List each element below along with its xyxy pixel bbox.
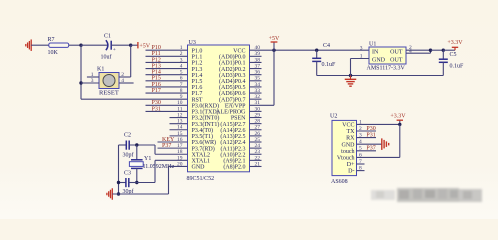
svg-text:P3.6(WR): P3.6(WR) bbox=[192, 139, 217, 146]
resistor R7 10K bbox=[48, 37, 69, 56]
svg-text:C1: C1 bbox=[104, 33, 111, 39]
svg-text:GND: GND bbox=[342, 142, 356, 148]
net label P30 bbox=[152, 100, 161, 106]
U3 pin 26 (A13)P2.5 bbox=[220, 131, 260, 140]
svg-text:30pf: 30pf bbox=[123, 152, 134, 159]
ground (U2) bbox=[382, 138, 389, 150]
U3 pin 19 XTAL1 bbox=[177, 155, 210, 164]
power +5V (VCC) bbox=[269, 36, 280, 50]
net label P31 bbox=[152, 106, 161, 112]
svg-text:P1.5: P1.5 bbox=[192, 79, 203, 85]
svg-text:touch: touch bbox=[341, 149, 354, 155]
svg-text:P11: P11 bbox=[152, 51, 161, 57]
net label P30 (U2) bbox=[366, 126, 375, 132]
wire U2 touch net P37 bbox=[357, 150, 377, 152]
node xtal bottom (crystal axis) bbox=[135, 181, 138, 184]
wire XTAL1 pin19 jog bbox=[137, 160, 188, 182]
net label KEY bbox=[162, 137, 175, 143]
wire U2 TX net P30 bbox=[357, 130, 377, 132]
capacitor C1 10uf (polarized) bbox=[101, 33, 116, 60]
svg-text:P10: P10 bbox=[152, 45, 161, 51]
wire C1 to node B bbox=[111, 44, 131, 46]
U3 pin 25 (A12)P2.4 bbox=[220, 137, 260, 146]
svg-text:P37: P37 bbox=[366, 146, 375, 152]
node rail/ground wire bbox=[117, 192, 120, 195]
U2 pin 7 D+ bbox=[347, 159, 362, 168]
svg-text:P1.7: P1.7 bbox=[192, 91, 203, 97]
U1 pin 1 GND wire bbox=[351, 53, 370, 75]
net label P37 bbox=[162, 143, 171, 149]
U3 pin 34 (AD5)P0.5 bbox=[219, 82, 260, 91]
svg-text:Y1: Y1 bbox=[144, 156, 151, 162]
svg-text:P31: P31 bbox=[152, 106, 161, 112]
wire net P13 bbox=[146, 68, 188, 70]
wire ground rail (left of crystal) bbox=[118, 145, 120, 194]
svg-text:+3.3V: +3.3V bbox=[447, 40, 463, 46]
svg-text:(A14)P2.6: (A14)P2.6 bbox=[220, 127, 245, 134]
U3 pin 13 P3.3(INT1) bbox=[177, 119, 219, 128]
svg-text:(AD7)P0.7: (AD7)P0.7 bbox=[219, 96, 246, 103]
svg-text:U2: U2 bbox=[330, 114, 337, 120]
svg-text:GND: GND bbox=[372, 57, 386, 63]
wire VCC pin40 to regulator bbox=[250, 49, 370, 51]
wire stub pin 26 bbox=[250, 135, 262, 137]
net label P16 bbox=[152, 82, 161, 88]
svg-text:P3.0(RXD): P3.0(RXD) bbox=[192, 103, 220, 110]
svg-text:P1.4: P1.4 bbox=[192, 73, 203, 79]
button pin 4 bbox=[119, 78, 134, 84]
U3 pin 24 (A11)P2.3 bbox=[221, 143, 261, 152]
svg-text:U3: U3 bbox=[189, 40, 196, 46]
wire stub pin 21 bbox=[250, 165, 262, 167]
svg-text:C5: C5 bbox=[450, 52, 457, 58]
U3 pin 12 P3.2(INT0) bbox=[177, 112, 219, 121]
U3 pin 5 P1.4 bbox=[180, 70, 203, 79]
button pin 3 bbox=[81, 78, 99, 84]
svg-text:RESET: RESET bbox=[99, 90, 119, 97]
svg-text:(A13)P2.5: (A13)P2.5 bbox=[220, 133, 245, 140]
svg-text:RST: RST bbox=[192, 97, 203, 103]
U2 pin 8 D- bbox=[348, 166, 362, 175]
wire net P12 bbox=[146, 61, 188, 63]
svg-text:R7: R7 bbox=[48, 37, 55, 43]
U3 pin 36 (AD3)P0.3 bbox=[219, 70, 260, 79]
svg-text:AMS1117-3.3V: AMS1117-3.3V bbox=[367, 66, 406, 72]
U3 pin 11 P3.1(TXD) bbox=[177, 106, 218, 115]
wire net P15 bbox=[146, 80, 188, 82]
svg-text:3: 3 bbox=[91, 78, 94, 84]
svg-text:+5V: +5V bbox=[139, 43, 150, 49]
U1 pin 4 OUT bbox=[406, 49, 431, 55]
node A (junction R7/C1/button) bbox=[79, 44, 82, 47]
capacitor C4 0.1uF bbox=[312, 43, 336, 76]
svg-text:P1.2: P1.2 bbox=[192, 61, 203, 67]
svg-text:IN: IN bbox=[372, 49, 379, 55]
U3 pin 7 P1.6 bbox=[180, 82, 203, 91]
wire stub pin 27 bbox=[250, 129, 262, 131]
svg-text:(AD6)P0.6: (AD6)P0.6 bbox=[219, 90, 246, 97]
svg-text:(A15)P2.7: (A15)P2.7 bbox=[220, 121, 245, 128]
wire stub pin 38 bbox=[250, 61, 262, 63]
U3 pin 6 P1.5 bbox=[180, 76, 203, 85]
wire net P17 bbox=[146, 92, 188, 94]
node B (junction C1/+5V/button right) bbox=[129, 44, 132, 47]
wire R7 to node A bbox=[69, 44, 81, 46]
watermark (blurred) bbox=[371, 188, 482, 202]
wire stub pin 29 bbox=[250, 117, 262, 119]
net label P17 bbox=[152, 88, 161, 94]
net label P15 bbox=[152, 76, 161, 82]
wire U2 D+ stub bbox=[357, 163, 365, 165]
svg-text:P16: P16 bbox=[152, 82, 161, 88]
svg-text:P30: P30 bbox=[366, 126, 375, 132]
svg-text:P31: P31 bbox=[366, 133, 375, 139]
wire U2 Vtouch to +3.3V bbox=[357, 124, 400, 157]
U2 pin 4 GND bbox=[342, 139, 363, 148]
svg-text:4: 4 bbox=[121, 78, 124, 84]
svg-text:(AD5)P0.5: (AD5)P0.5 bbox=[219, 84, 246, 91]
svg-text:P15: P15 bbox=[152, 76, 161, 82]
svg-text:C2: C2 bbox=[124, 132, 131, 138]
svg-text:P1.3: P1.3 bbox=[192, 67, 203, 73]
wire stub pin 25 bbox=[250, 141, 262, 143]
designator U2 bbox=[330, 114, 337, 120]
svg-text:+5V: +5V bbox=[269, 36, 280, 42]
wire stub pin 36 bbox=[250, 74, 262, 76]
ground (crystal) bbox=[107, 188, 112, 200]
U2 pin 3 RX bbox=[346, 133, 362, 142]
svg-text:(A11)P2.3: (A11)P2.3 bbox=[221, 145, 246, 152]
wire net P11 bbox=[146, 55, 188, 57]
U3 pin 33 (AD6)P0.6 bbox=[219, 88, 260, 97]
svg-text:4: 4 bbox=[409, 49, 412, 55]
svg-text:P14: P14 bbox=[152, 70, 161, 76]
capacitor C5 0.1uF bbox=[439, 50, 464, 75]
wire stub pin 33 bbox=[250, 92, 262, 94]
U2 pin 5 touch bbox=[341, 146, 362, 155]
module U2 AS608 body bbox=[332, 120, 357, 175]
wire XTAL2 pin18 jog bbox=[155, 145, 188, 154]
svg-text:PSEN: PSEN bbox=[231, 116, 246, 122]
wire reset bottom to RST pin bbox=[81, 98, 188, 100]
U1 pin 3 IN bbox=[360, 45, 363, 51]
svg-text:P13: P13 bbox=[152, 63, 161, 69]
svg-text:P1.1: P1.1 bbox=[192, 55, 203, 61]
U3 pin 2 P1.1 bbox=[180, 51, 203, 60]
net label P31 (U2) bbox=[366, 133, 375, 139]
wire stub pin 24 bbox=[250, 147, 262, 149]
wire stub pin 28 bbox=[250, 123, 262, 125]
U2 pin 6 Vtouch bbox=[337, 152, 362, 161]
svg-text:0.1uF: 0.1uF bbox=[322, 62, 337, 68]
node U1 outputs join bbox=[429, 49, 432, 52]
svg-text:D+: D+ bbox=[347, 162, 355, 168]
wire U2 RX net P31 bbox=[357, 137, 377, 139]
svg-text:GND: GND bbox=[192, 165, 206, 171]
part name 89C51/C52 bbox=[187, 176, 215, 182]
U3 pin 39 (AD0)P0.0 bbox=[219, 51, 260, 60]
svg-text:P3.7(RD): P3.7(RD) bbox=[192, 145, 215, 152]
svg-text:P12: P12 bbox=[152, 57, 161, 63]
wire stub pin 23 bbox=[250, 153, 262, 155]
svg-text:ALE/PROG: ALE/PROG bbox=[216, 110, 246, 116]
U3 pin 4 P1.3 bbox=[180, 64, 203, 73]
net label P10 bbox=[152, 45, 161, 51]
svg-text:C4: C4 bbox=[323, 43, 330, 49]
svg-text:P30: P30 bbox=[152, 100, 161, 106]
svg-text:(AD4)P0.4: (AD4)P0.4 bbox=[219, 78, 246, 85]
wire gnd rail under U1 bbox=[317, 75, 444, 77]
wire xtal top (to C2) bbox=[119, 144, 156, 146]
push button K1 RESET bbox=[97, 67, 119, 89]
svg-text:P3.2(INT0): P3.2(INT0) bbox=[192, 115, 220, 122]
svg-text:(AD1)P0.1: (AD1)P0.1 bbox=[219, 60, 246, 67]
U3 pin 17 P3.7(RD) bbox=[177, 143, 215, 152]
wire stub pin 39 bbox=[250, 55, 262, 57]
designator U3 bbox=[189, 40, 196, 46]
svg-text:(AD0)P0.0: (AD0)P0.0 bbox=[219, 54, 246, 61]
wire to +3.3V bbox=[443, 49, 455, 51]
node U2 VCC/Vtouch bbox=[398, 123, 401, 126]
wire net P31 bbox=[146, 110, 188, 112]
wire U2 D- stub bbox=[357, 170, 365, 172]
svg-text:C3: C3 bbox=[124, 171, 131, 177]
svg-text:(A12)P2.4: (A12)P2.4 bbox=[220, 139, 245, 146]
label RESET bbox=[99, 90, 119, 97]
svg-text:(A8)P2.0: (A8)P2.0 bbox=[223, 164, 245, 171]
svg-text:P3.4(T0): P3.4(T0) bbox=[192, 127, 214, 134]
button pin 1 bbox=[87, 72, 99, 78]
wire button pin2 up to node B bbox=[130, 45, 132, 77]
part name AS608 bbox=[331, 179, 348, 185]
wire stub pin 32 bbox=[250, 98, 262, 100]
U3 pin 40 VCC bbox=[233, 45, 260, 54]
U3 pin 3 P1.2 bbox=[180, 57, 203, 66]
svg-text:10K: 10K bbox=[48, 50, 59, 56]
U2 pin 1 VCC bbox=[342, 119, 362, 128]
U3 pin 37 (AD2)P0.2 bbox=[219, 64, 260, 73]
svg-text:P1.0: P1.0 bbox=[192, 48, 203, 54]
svg-text:P1.6: P1.6 bbox=[192, 85, 203, 91]
svg-text:1: 1 bbox=[91, 72, 94, 78]
net label P14 bbox=[152, 70, 161, 76]
svg-text:OUT: OUT bbox=[390, 49, 403, 55]
svg-text:1: 1 bbox=[360, 53, 363, 59]
U3 pin 14 P3.4(T0) bbox=[177, 125, 213, 134]
U3 pin 22 (A9)P2.1 bbox=[223, 155, 260, 164]
svg-text:U1: U1 bbox=[369, 42, 376, 48]
capacitor C2 30pf bbox=[123, 132, 134, 158]
wire node B to +5V bar bbox=[131, 44, 138, 46]
U3 pin 10 P3.0(RXD) bbox=[177, 100, 219, 109]
U3 pin 23 (A10)P2.2 bbox=[220, 149, 260, 158]
U3 pin 29 PSEN bbox=[231, 112, 260, 121]
svg-text:XTAL1: XTAL1 bbox=[192, 159, 211, 165]
U3 pin 16 P3.6(WR) bbox=[177, 137, 216, 146]
wire OUT to C5 bbox=[431, 49, 444, 51]
power +3.3V (regulator out) bbox=[447, 40, 463, 50]
wire stub pin 37 bbox=[250, 68, 262, 70]
svg-text:VCC: VCC bbox=[342, 123, 354, 129]
net label P12 bbox=[152, 57, 161, 63]
crystal Y1 11.0592MHz bbox=[129, 145, 174, 183]
svg-text:3: 3 bbox=[360, 45, 363, 51]
svg-text:AS608: AS608 bbox=[331, 179, 348, 185]
ground (regulator) bbox=[345, 76, 357, 87]
ground (reset, left of R7) bbox=[26, 39, 31, 51]
U3 pin 28 (A15)P2.7 bbox=[220, 119, 260, 128]
U3 pin 30 ALE/PROG bbox=[216, 106, 260, 115]
svg-text:89C51/C52: 89C51/C52 bbox=[187, 176, 215, 182]
svg-text:Vtouch: Vtouch bbox=[337, 156, 355, 162]
svg-text:+: + bbox=[113, 47, 116, 53]
svg-text:VCC: VCC bbox=[233, 48, 245, 54]
wire stub pin 30 bbox=[250, 110, 262, 112]
wire net P30 bbox=[146, 104, 188, 106]
U1 pin 2 OUT bbox=[406, 45, 431, 51]
wire U2 GND bbox=[357, 143, 382, 145]
wire net KEY bbox=[158, 141, 188, 143]
capacitor C3 30pf bbox=[123, 171, 137, 195]
node xtal top (crystal axis) bbox=[135, 143, 138, 146]
wire EA/VPP to +5V bbox=[250, 50, 275, 105]
svg-text:(A9)P2.1: (A9)P2.1 bbox=[223, 158, 245, 165]
net label P37 (U2) bbox=[366, 146, 375, 152]
U3 pin 38 (AD1)P0.1 bbox=[219, 57, 260, 66]
U3 pin 15 P3.5(T1) bbox=[177, 131, 213, 140]
svg-text:KEY: KEY bbox=[162, 137, 175, 143]
net label P11 bbox=[152, 51, 161, 57]
svg-text:XTAL2: XTAL2 bbox=[192, 152, 211, 158]
wire U2 VCC bbox=[357, 123, 400, 125]
wire ground to R7 bbox=[31, 44, 49, 46]
power +3.3V (U2) bbox=[390, 114, 406, 125]
U3 pin 20 GND bbox=[177, 161, 205, 170]
U3 pin 27 (A14)P2.6 bbox=[220, 125, 260, 134]
svg-text:0.1uF: 0.1uF bbox=[450, 63, 465, 69]
svg-text:P37: P37 bbox=[162, 143, 171, 149]
svg-text:+3.3V: +3.3V bbox=[390, 114, 406, 120]
U3 pin 8 P1.7 bbox=[180, 88, 203, 97]
svg-text:OUT: OUT bbox=[390, 57, 403, 63]
U2 pin 2 TX bbox=[347, 126, 363, 135]
U3 pin 1 P1.0 bbox=[180, 45, 203, 54]
wire net P37 bbox=[158, 147, 188, 149]
wire stub pin 15 bbox=[170, 135, 188, 137]
wire node A down to reset bottom bbox=[80, 45, 82, 99]
svg-text:P3.3(INT1): P3.3(INT1) bbox=[192, 121, 220, 128]
regulator U1 AMS1117-3.3V bbox=[367, 42, 407, 72]
wire net P14 bbox=[146, 74, 188, 76]
node rail/C3 bbox=[117, 181, 120, 184]
net label P13 bbox=[152, 63, 161, 69]
U3 pin 31 EA/VPP bbox=[225, 100, 260, 109]
U3 pin 21 (A8)P2.0 bbox=[223, 161, 260, 170]
wire net P16 bbox=[146, 86, 188, 88]
svg-text:(AD3)P0.3: (AD3)P0.3 bbox=[219, 72, 246, 79]
svg-text:TX: TX bbox=[347, 129, 356, 135]
wire stub pin 22 bbox=[250, 159, 262, 161]
power +5V (reset rail) bbox=[138, 42, 151, 49]
wire node A to C1 bbox=[81, 44, 108, 46]
svg-text:P17: P17 bbox=[152, 88, 161, 94]
op chip U3 89C51 body bbox=[188, 45, 250, 172]
U3 pin 35 (AD4)P0.4 bbox=[219, 76, 260, 85]
node gnd rail / U1 GND bbox=[349, 74, 352, 77]
node C5 top bbox=[442, 49, 445, 52]
button pin 2 bbox=[119, 72, 131, 78]
svg-text:RX: RX bbox=[346, 136, 355, 142]
wire xtal bottom (to C3) bbox=[119, 182, 126, 184]
svg-text:P3.1(TXD): P3.1(TXD) bbox=[192, 109, 219, 116]
wire stub pin 13 bbox=[170, 123, 188, 125]
svg-text:9: 9 bbox=[180, 94, 183, 100]
U3 pin 9 RST bbox=[180, 94, 203, 103]
U3 pin 18 XTAL2 bbox=[177, 149, 210, 158]
svg-text:(A10)P2.2: (A10)P2.2 bbox=[220, 151, 245, 158]
wire stub pin 34 bbox=[250, 86, 262, 88]
svg-text:D-: D- bbox=[348, 169, 354, 175]
wire stub pin 14 bbox=[170, 129, 188, 131]
node C (button pin3 junction) bbox=[79, 81, 82, 84]
U3 pin 32 (AD7)P0.7 bbox=[219, 94, 260, 103]
svg-text:10uf: 10uf bbox=[101, 54, 112, 61]
wire stub pin 12 bbox=[170, 117, 188, 119]
svg-text:(AD2)P0.2: (AD2)P0.2 bbox=[219, 66, 246, 73]
node C4 top bbox=[315, 49, 318, 52]
svg-text:2: 2 bbox=[121, 72, 124, 78]
svg-text:P3.5(T1): P3.5(T1) bbox=[192, 133, 214, 140]
svg-text:K1: K1 bbox=[97, 67, 104, 73]
wire stub pin 35 bbox=[250, 80, 262, 82]
wire ground to GND pin20 bbox=[112, 166, 187, 194]
wire net P10 bbox=[146, 49, 188, 51]
svg-text:EA/VPP: EA/VPP bbox=[225, 104, 246, 110]
node VCC/+5V bbox=[272, 49, 275, 52]
